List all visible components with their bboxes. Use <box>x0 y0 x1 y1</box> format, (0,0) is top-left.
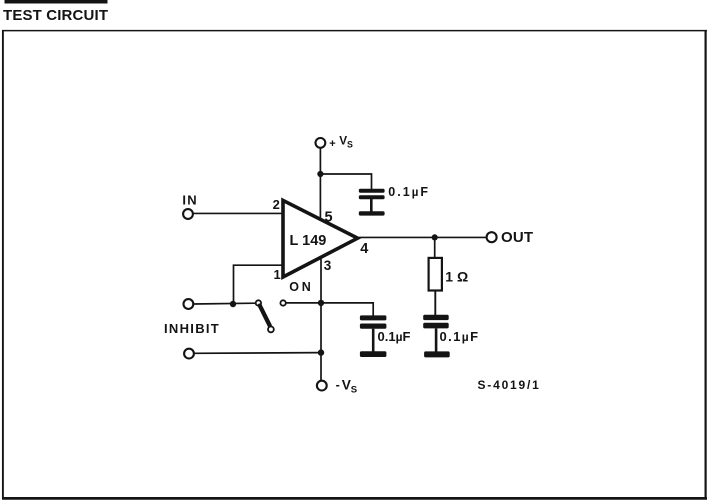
switch S1 left contact <box>256 300 261 305</box>
wire lower inhibit to -Vs node <box>194 352 321 355</box>
capacitor C3 0.1uF <box>423 315 450 358</box>
svg-text:0.1µF: 0.1µF <box>378 329 411 344</box>
junction dot pin3/switch <box>318 300 324 306</box>
wire +Vs down to pin 5 <box>319 148 321 218</box>
wire output pin 4 to OUT <box>359 236 487 238</box>
resistor R1 1 ohm <box>429 258 442 291</box>
svg-text:ON: ON <box>289 280 313 294</box>
wire pin1 to riser <box>234 265 284 304</box>
svg-text:0.1µF: 0.1µF <box>388 185 430 199</box>
node INHIBIT lower terminal <box>184 349 194 359</box>
node OUT terminal <box>487 232 497 242</box>
junction dot -Vs rail <box>318 349 324 355</box>
switch S1 pivot circle <box>268 327 274 333</box>
wire junction to R1 <box>434 237 436 258</box>
svg-text:OUT: OUT <box>501 229 533 246</box>
svg-text:5: 5 <box>325 210 333 226</box>
wire R1 to C3 <box>434 291 436 317</box>
capacitor C2 0.1uF <box>360 315 387 357</box>
wire junction to C2 <box>321 303 373 317</box>
wire INHIBIT to switch <box>193 302 255 305</box>
wire IN to pin 2 <box>193 212 283 214</box>
junction dot inhibit <box>230 301 236 307</box>
switch S1 right contact <box>280 300 285 305</box>
node IN terminal <box>183 209 193 219</box>
wire switch to pin3 line <box>286 302 321 304</box>
svg-text:IN: IN <box>182 192 197 207</box>
svg-text:2: 2 <box>273 197 280 212</box>
op-amp U1 L149 <box>283 200 358 277</box>
capacitor C1 0.1uF <box>359 189 385 216</box>
wire junction to C1 <box>320 174 371 190</box>
svg-text:S: S <box>351 384 357 395</box>
top edge bar <box>5 0 108 4</box>
node -Vs terminal <box>317 381 327 391</box>
svg-text:L 149: L 149 <box>290 233 327 249</box>
svg-text:0.1µF: 0.1µF <box>440 329 480 344</box>
junction dot output <box>432 234 438 240</box>
svg-text:S: S <box>347 139 353 149</box>
wire pin 3 down <box>320 259 322 381</box>
node INHIBIT terminal <box>184 299 194 309</box>
svg-text:4: 4 <box>360 241 368 257</box>
svg-text:-: - <box>336 378 340 392</box>
svg-text:3: 3 <box>324 258 332 273</box>
svg-text:INHIBIT: INHIBIT <box>164 321 220 336</box>
svg-text:S-4019/1: S-4019/1 <box>478 378 541 392</box>
svg-text:1 Ω: 1 Ω <box>445 268 468 284</box>
switch S1 lever <box>260 306 270 326</box>
svg-text:TEST CIRCUIT: TEST CIRCUIT <box>3 7 108 24</box>
svg-text:1: 1 <box>274 267 281 282</box>
node +Vs terminal <box>316 138 326 148</box>
svg-text:+: + <box>329 138 335 150</box>
junction dot on +Vs line <box>317 171 323 177</box>
